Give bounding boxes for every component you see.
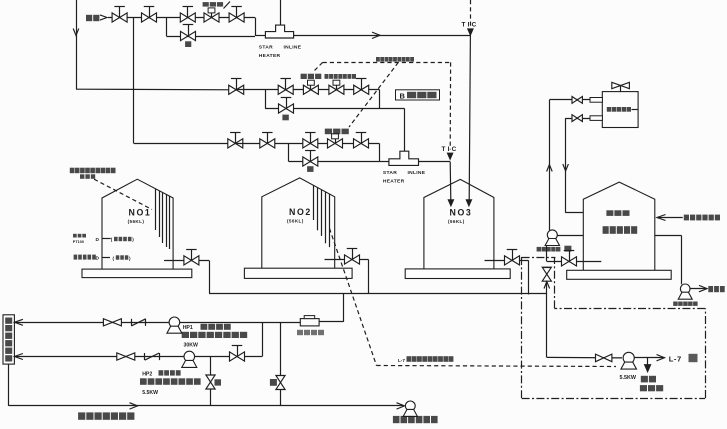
flow arrow down downcomer [563,164,569,171]
wire pump discharge [690,288,707,290]
wire heater1 inlet [255,35,265,37]
label 電動弁 row1 [203,2,223,7]
chiller nozzle lower [590,116,602,121]
control dashed horizontal L-7送りポンプ制御 [377,366,617,367]
wire return from pump room [8,364,10,406]
arrow into pump room HP2 [14,354,23,360]
node 井水 supply label [86,15,99,21]
control dashed diagonal from NO2 [330,229,377,366]
valve row3 #3 [303,139,318,148]
svg-text:TIC: TIC [462,22,479,29]
wire meter to manifold riser [319,321,343,323]
label タンク内温水温調弁 [376,57,414,62]
label 閉 row2 [282,115,288,121]
leader tick [224,2,231,9]
label 閉 circulation [564,246,571,252]
pump 循環ポンプ [547,230,557,240]
wire NO2 outlet drop [368,260,370,294]
svg-text:30KW: 30KW [184,343,199,349]
wire tank outlet to 冷水ポンプ [655,235,682,237]
wire drop to heater2 top [404,109,406,152]
valve 閉 branch 1 [206,375,215,389]
svg-text:HP2: HP2 [142,371,152,377]
svg-text:INLINE: INLINE [408,170,426,176]
flow arrow down [73,29,79,36]
valve before motor valve [180,13,195,22]
valve tank NO2 outlet [325,259,369,261]
arrow into pump room HP1 [14,319,23,325]
wire NO1 outlet drop [209,260,211,293]
boundary dash-dot riser [554,257,556,308]
pump 設備高圧洗浄 [397,403,405,409]
label 停止中 [80,174,95,179]
wire manifold under tanks [209,293,547,295]
svg-text:HEATER: HEATER [259,53,281,59]
label 閉 branch1 [215,379,222,385]
wire pump outlet L-7 [634,357,664,359]
label 洗濯機 [640,385,663,391]
valve HP2 crossover [230,352,245,361]
wire down to tank NO3 (from TIC2 node) [449,162,452,200]
wire down to tank NO3 (from TIC1 node) [469,35,470,199]
flow arrow up drain [544,282,550,289]
tank NO3 plinth [405,269,510,279]
motor valve 電動弁 row1 [204,13,219,22]
wire drain valve branch 2 [280,322,282,406]
label 閉 row1 [185,41,191,47]
instrument dashed leader left end [315,62,323,70]
wire row3 bypass branch [288,143,290,161]
svg-text:5.5KW: 5.5KW [620,375,637,381]
wire heater2 outlet [419,161,451,163]
check valve chiller return [572,115,582,122]
bypass valve 閉 row1 [181,31,196,40]
bypass valve 閉 row2 [279,104,294,113]
wire HP2 crossover riser [262,322,264,356]
svg-text:L-7: L-7 [398,358,405,363]
label メーター [297,330,324,335]
valve row3 #2 [260,139,275,148]
boundary dash-dot left [521,257,523,398]
tank 冷水タンク plinth [567,270,672,279]
label 設備 [641,376,656,383]
svg-text:D: D [96,255,100,261]
valve row2 #1 [229,85,244,94]
heater U1 STAR INLINE HEATER body [265,25,293,38]
control valve コントロール弁 [329,85,344,94]
label 電動弁 row2 [301,74,322,79]
svg-text:STAR: STAR [383,170,397,176]
arrow 設備へ [699,285,707,291]
valve vertical on drain [542,267,551,281]
wire heater1 top feed [280,0,282,25]
tank NO1 plinth [82,269,192,278]
boundary dash-dot top [522,257,556,259]
svg-text:PT100: PT100 [73,240,84,244]
label 電動弁 row3 [325,129,349,135]
svg-text:HP1: HP1 [183,325,193,331]
svg-text:D: D [96,237,100,243]
check valve HP1 [103,319,121,326]
valve 閉 tank inlet [562,257,577,266]
wire row3 bypass [289,161,380,163]
boundary dash-dot bottom [522,398,706,400]
svg-text:L-7: L-7 [669,355,682,364]
tank NO2 [262,178,335,268]
boundary dash-dot upper shelf [555,308,706,310]
svg-text:NO3: NO3 [450,208,473,218]
wire to heater2 [379,161,389,163]
instrument line TIC1 dashed [470,0,472,31]
wire 閉 line into tank [547,261,602,263]
tank NO2 level hatch lines [313,185,315,220]
wire downcomer into tank wall [566,212,584,214]
tank 冷水タンク [583,182,655,270]
wire row2 feed horizontal [76,88,236,91]
valve row2 #2 [278,85,293,94]
label 冷水ポンプ [673,302,697,306]
arrow L-7へ [657,355,665,361]
wire NO3 outlet drop [528,260,530,294]
label 閉 row3 [307,166,313,172]
wire bypass branch down [166,18,168,37]
svg-text:NO2: NO2 [289,207,312,217]
label 円厩送り中継ポンプ HP2 [140,378,201,385]
valve after motor valve [229,13,244,22]
wire row2 bypass [265,108,405,110]
union joint HP1 [131,319,133,326]
tank NO1 level hatch lines [155,189,157,230]
pump room box 高圧ポンプ室 [3,315,14,364]
valve tank NO3 outlet [485,260,529,262]
instrument dashed line タンク内温水温調弁 [323,62,451,64]
label 閉 branch2 [270,379,277,386]
wire pump down to drain tee [546,246,548,262]
wire well-water main header [108,17,255,19]
label 循環ポンプ [537,247,561,252]
TIC1 arrowhead [468,29,473,35]
valve tank NO1 outlet [164,260,209,262]
wire to pump L-7 [547,356,622,359]
wire row3 feed horizontal [134,143,236,145]
svg-text:5.5KW: 5.5KW [142,390,158,396]
wire drain down [546,281,548,357]
wire drop to heater1 [255,18,257,37]
wire heater1 outlet to TIC node [294,35,471,37]
svg-text:INLINE: INLINE [284,45,302,51]
valve row3 #4 [354,139,369,148]
wire pump to tank wall [557,235,583,237]
flow arrow up riser [547,165,553,172]
svg-text:(56KL): (56KL) [128,219,145,224]
arrow into NO3 a [466,200,471,206]
svg-text:B: B [400,91,406,100]
svg-text:(56KL): (56KL) [448,219,465,224]
wire downfeed to row2 [76,0,78,89]
wire chiller supply [549,99,590,101]
meter on HP1 line [300,319,319,326]
wire chiller return [566,118,590,120]
pump 冷水ポンプ [680,284,690,294]
valve on main header [112,13,127,22]
wire row3 drop to bypass level [379,143,381,161]
flow arrow right [372,32,380,38]
label 設備高圧洗浄 [393,416,438,423]
sensor 投込温度計 label [74,255,96,260]
wire downfeed to row3 [133,18,135,144]
wire HP2 line [14,356,262,358]
check valve chiller supply [572,97,582,104]
check valve L-7 line [596,354,612,362]
tank NO1 [102,179,173,269]
wire row3 main [235,143,379,145]
svg-text:HEATER: HEATER [383,178,405,184]
wire downcomer chiller to tank [565,118,567,213]
wire HP1 line [14,322,300,324]
sensor 温度計 PT100 labels [73,234,86,238]
wire row2 bypass branch [265,90,267,109]
svg-text:STAR: STAR [259,45,273,51]
heater U2 STAR INLINE HEATER body [389,151,419,165]
label コントロール弁 [325,74,357,79]
svg-text:NO1: NO1 [129,208,152,218]
pump HP1 [169,317,180,328]
label ポンプ室から戻り [78,412,134,419]
label chiller 空冷式チラー [607,107,631,112]
union joint HP2 [144,353,146,360]
svg-text:TIC: TIC [442,146,459,153]
boundary dash-dot right [705,308,707,398]
check valve HP2 [117,353,135,360]
instrument dashed diagonal to row3 motor valve [349,62,398,127]
motor valve 電動弁 row3 [328,139,343,148]
wire drain valve branch 1 [210,357,212,406]
valve on main header 2 [142,13,157,22]
svg-text:(56KL): (56KL) [287,219,304,224]
pump 5.5KW L-7 [623,352,634,363]
arrow 設備から戻り into tank [657,217,683,219]
instrument dashed down to TIC2 [449,62,451,149]
valve row3 #1 [228,139,243,148]
valve chiller top [612,82,630,88]
dashed leader to NO1 [94,179,152,209]
label Bライン box [396,90,440,100]
flow arrow return [130,403,138,409]
TIC2 arrowhead [448,153,453,159]
pump HP2 [184,351,195,362]
chiller nozzle upper [590,98,602,103]
valve 閉 branch 2 [276,376,285,390]
label 冷水タンク [603,226,638,234]
wire row2 drop to bypass level [379,90,381,109]
tank NO2 plinth [244,268,352,278]
arrow into NO3 b [448,200,453,206]
wire row2 main [236,89,379,91]
label 設備から戻り [684,215,720,221]
label 円厩送り中継ポンプ HP1 [182,332,248,338]
tank NO3 [424,179,494,269]
label 設備へ [708,286,724,292]
label 設備用 [606,210,629,216]
branch arrow down 設備洗濯機 [647,358,649,366]
label 前タンク据わりし管 [70,168,116,174]
motor valve 電動弁 row2 [303,85,318,94]
wire riser pump to chiller [549,100,551,230]
valve row2 #3 [354,85,369,94]
wire row1 bypass [166,36,255,38]
chiller box [602,92,638,128]
bypass valve 閉 row3 [303,157,318,166]
